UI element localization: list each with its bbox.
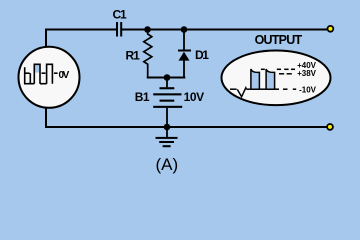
svg-text:+38V: +38V [297, 69, 317, 78]
svg-text:-10V: -10V [299, 85, 317, 94]
svg-text:(A): (A) [156, 155, 179, 174]
svg-text:R1: R1 [126, 49, 141, 63]
svg-text:D1: D1 [195, 48, 209, 62]
svg-text:C1: C1 [113, 7, 127, 21]
svg-text:0V: 0V [59, 70, 70, 81]
svg-text:B1: B1 [135, 90, 150, 104]
svg-text:10V: 10V [184, 90, 205, 104]
svg-text:OUTPUT: OUTPUT [255, 33, 303, 47]
